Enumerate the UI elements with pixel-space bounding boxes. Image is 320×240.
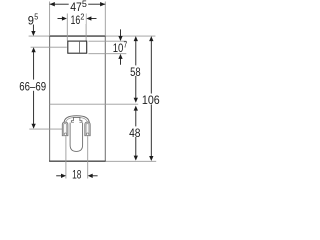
dimension 48 xyxy=(135,110,137,126)
dimension 18 bottom (outside arrows) xyxy=(56,175,97,177)
floor line right extension xyxy=(106,160,156,162)
left extension line ear top ref (for 66-69 bottom) xyxy=(29,128,64,130)
WC outlet / pan connection shape xyxy=(62,116,90,152)
seat level line (58 / 48 junction) xyxy=(50,103,139,105)
dimension 66-69 (left vertical) xyxy=(33,52,35,80)
svg-text:5: 5 xyxy=(34,11,38,21)
module front panel xyxy=(49,36,106,161)
svg-text:7: 7 xyxy=(124,40,128,50)
extension lines for 18 (fixing bolts) xyxy=(65,136,67,178)
dome outer xyxy=(64,116,90,135)
U tube xyxy=(70,123,83,152)
extension line above module left (47.5 ext) xyxy=(49,2,51,37)
extension line above module right (47.5 ext) xyxy=(104,2,106,37)
extension lines for 10.7 plate height xyxy=(88,40,126,42)
dimension 10.7 (outside arrows, right) xyxy=(120,29,122,36)
chimney cross xyxy=(71,117,82,126)
svg-text:48: 48 xyxy=(129,126,140,140)
right extension module top (for 58 / 106) xyxy=(105,35,155,37)
dome inner xyxy=(66,117,88,134)
svg-text:18: 18 xyxy=(72,167,81,180)
text labels with white boxes xyxy=(18,0,160,181)
svg-text:106: 106 xyxy=(142,93,160,107)
dimension 58 xyxy=(135,41,137,66)
extension lines for 16.2 (plate width) xyxy=(66,14,68,41)
flush plate xyxy=(68,41,87,53)
left ear xyxy=(62,122,68,136)
dimension 16.2 (outside arrows) xyxy=(58,18,97,20)
svg-text:66–69: 66–69 xyxy=(19,79,46,93)
left extension line plate centre (for 9.5 / 66-69) xyxy=(31,46,67,48)
svg-text:10: 10 xyxy=(113,41,124,55)
svg-text:5: 5 xyxy=(82,0,87,9)
dimension 47.5 top xyxy=(50,3,106,5)
svg-text:2: 2 xyxy=(80,12,84,22)
svg-text:16: 16 xyxy=(71,13,81,27)
dimension 9.5 (outside arrows, left) xyxy=(32,25,34,32)
left extension line module top (for 9.5) xyxy=(29,35,50,37)
dimension 106 xyxy=(150,41,152,94)
svg-text:9: 9 xyxy=(28,14,34,28)
svg-text:58: 58 xyxy=(130,65,141,79)
right ear xyxy=(85,122,90,136)
